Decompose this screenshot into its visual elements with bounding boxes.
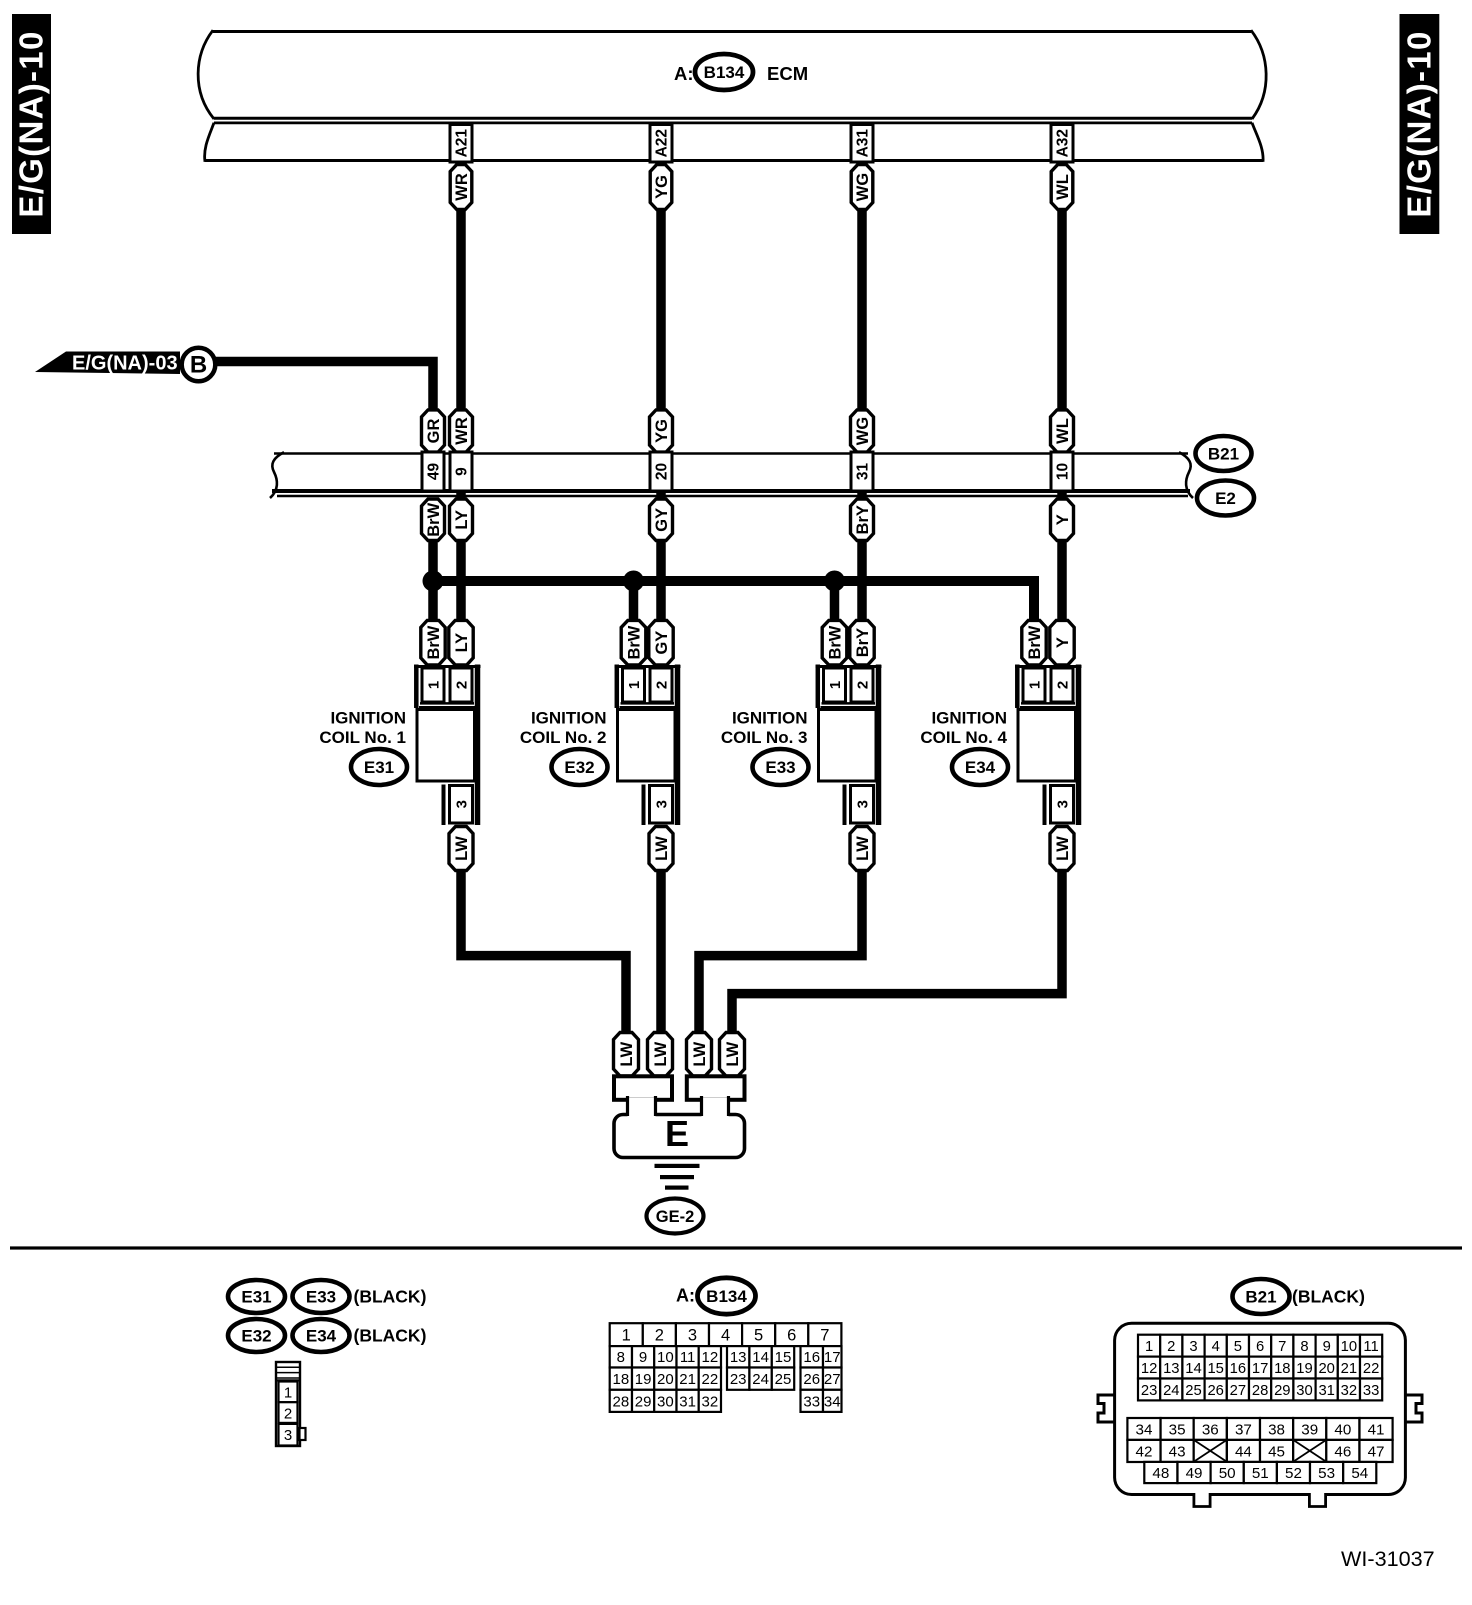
svg-text:YG: YG [653, 419, 671, 443]
svg-text:GR: GR [425, 419, 443, 444]
svg-text:LW: LW [653, 836, 671, 861]
svg-text:42: 42 [1136, 1443, 1153, 1460]
svg-text:B21: B21 [1245, 1288, 1276, 1307]
svg-text:31: 31 [855, 463, 872, 481]
svg-text:B21: B21 [1208, 445, 1239, 464]
svg-text:46: 46 [1334, 1443, 1351, 1460]
svg-text:10: 10 [1055, 463, 1072, 480]
svg-text:9: 9 [1323, 1339, 1331, 1355]
svg-text:E34: E34 [306, 1327, 337, 1346]
svg-text:19: 19 [1296, 1361, 1312, 1377]
svg-text:LW: LW [1054, 836, 1072, 861]
svg-text:7: 7 [1278, 1339, 1286, 1355]
svg-text:(BLACK): (BLACK) [354, 1326, 427, 1346]
svg-text:30: 30 [1296, 1383, 1312, 1399]
svg-text:1: 1 [284, 1385, 292, 1402]
svg-text:31: 31 [1318, 1383, 1334, 1399]
svg-text:Y: Y [1054, 514, 1072, 525]
svg-text:LW: LW [691, 1041, 709, 1066]
svg-text:LY: LY [453, 510, 471, 530]
svg-text:COIL No. 4: COIL No. 4 [920, 728, 1007, 747]
svg-text:26: 26 [803, 1371, 820, 1388]
svg-text:13: 13 [1163, 1361, 1179, 1377]
svg-text:35: 35 [1169, 1421, 1186, 1438]
svg-text:LW: LW [724, 1041, 742, 1066]
svg-text:A:: A: [674, 63, 694, 84]
svg-text:LW: LW [618, 1041, 636, 1066]
svg-text:WG: WG [854, 417, 872, 445]
svg-text:1: 1 [1145, 1339, 1153, 1355]
svg-text:COIL No. 1: COIL No. 1 [319, 728, 406, 747]
svg-text:1: 1 [425, 681, 442, 689]
svg-text:24: 24 [752, 1371, 769, 1388]
svg-text:LY: LY [453, 633, 471, 653]
svg-text:12: 12 [1141, 1361, 1157, 1377]
svg-text:40: 40 [1334, 1421, 1351, 1438]
svg-text:48: 48 [1152, 1465, 1169, 1482]
svg-text:E2: E2 [1215, 489, 1236, 508]
svg-text:20: 20 [657, 1371, 674, 1388]
svg-text:COIL No. 3: COIL No. 3 [721, 728, 808, 747]
svg-text:GY: GY [653, 631, 671, 655]
svg-text:IGNITION: IGNITION [330, 709, 406, 728]
svg-text:17: 17 [824, 1349, 841, 1366]
svg-text:33: 33 [803, 1393, 820, 1410]
svg-text:LW: LW [652, 1041, 670, 1066]
svg-text:1: 1 [626, 681, 643, 689]
svg-text:10: 10 [1341, 1339, 1357, 1355]
svg-text:26: 26 [1207, 1383, 1223, 1399]
svg-text:(BLACK): (BLACK) [354, 1287, 427, 1307]
svg-text:8: 8 [617, 1349, 625, 1366]
svg-text:14: 14 [752, 1349, 769, 1366]
svg-text:54: 54 [1351, 1465, 1368, 1482]
svg-text:34: 34 [824, 1393, 841, 1410]
svg-text:19: 19 [635, 1371, 652, 1388]
svg-text:E/G(NA)-10: E/G(NA)-10 [1401, 30, 1438, 217]
svg-text:6: 6 [787, 1327, 796, 1345]
svg-text:43: 43 [1169, 1443, 1186, 1460]
svg-text:52: 52 [1285, 1465, 1302, 1482]
svg-text:20: 20 [1318, 1361, 1334, 1377]
svg-text:12: 12 [702, 1349, 719, 1366]
svg-text:WR: WR [453, 417, 471, 445]
svg-text:3: 3 [284, 1427, 292, 1444]
svg-text:YG: YG [653, 175, 671, 199]
svg-text:GE-2: GE-2 [656, 1208, 695, 1226]
svg-text:LW: LW [453, 836, 471, 861]
svg-text:2: 2 [854, 681, 871, 689]
svg-text:IGNITION: IGNITION [931, 709, 1007, 728]
svg-text:B134: B134 [704, 63, 745, 82]
svg-text:E31: E31 [364, 758, 394, 777]
svg-text:WR: WR [453, 173, 471, 201]
svg-text:Y: Y [1054, 637, 1072, 648]
svg-text:(BLACK): (BLACK) [1292, 1287, 1365, 1307]
svg-text:COIL No. 2: COIL No. 2 [520, 728, 607, 747]
svg-text:31: 31 [679, 1393, 696, 1410]
svg-text:14: 14 [1185, 1361, 1201, 1377]
svg-text:16: 16 [1230, 1361, 1246, 1377]
svg-text:16: 16 [803, 1349, 820, 1366]
svg-text:BrW: BrW [425, 502, 443, 536]
svg-text:50: 50 [1219, 1465, 1236, 1482]
svg-text:5: 5 [754, 1327, 763, 1345]
svg-text:2: 2 [1167, 1339, 1175, 1355]
svg-text:BrY: BrY [854, 505, 872, 534]
svg-text:3: 3 [653, 800, 670, 808]
svg-text:32: 32 [702, 1393, 719, 1410]
svg-text:B134: B134 [706, 1287, 747, 1306]
svg-text:4: 4 [1212, 1339, 1220, 1355]
svg-text:IGNITION: IGNITION [732, 709, 808, 728]
svg-text:E32: E32 [564, 758, 594, 777]
svg-text:30: 30 [657, 1393, 674, 1410]
svg-text:38: 38 [1268, 1421, 1285, 1438]
svg-text:9: 9 [639, 1349, 647, 1366]
svg-text:E34: E34 [965, 758, 996, 777]
svg-text:25: 25 [775, 1371, 792, 1388]
svg-text:27: 27 [824, 1371, 841, 1388]
svg-text:11: 11 [1363, 1339, 1378, 1355]
svg-text:23: 23 [730, 1371, 747, 1388]
svg-text:15: 15 [775, 1349, 792, 1366]
svg-text:45: 45 [1268, 1443, 1285, 1460]
svg-text:53: 53 [1318, 1465, 1335, 1482]
svg-text:41: 41 [1368, 1421, 1385, 1438]
svg-text:B: B [190, 352, 207, 379]
svg-text:BrY: BrY [854, 628, 872, 657]
svg-text:4: 4 [721, 1327, 730, 1345]
svg-text:2: 2 [1054, 681, 1071, 689]
svg-text:WL: WL [1054, 418, 1072, 444]
svg-text:WG: WG [854, 173, 872, 201]
svg-text:E33: E33 [765, 758, 795, 777]
svg-text:7: 7 [820, 1327, 829, 1345]
svg-text:18: 18 [1274, 1361, 1290, 1377]
svg-text:A32: A32 [1055, 129, 1072, 157]
svg-text:27: 27 [1230, 1383, 1246, 1399]
svg-text:22: 22 [1363, 1361, 1379, 1377]
svg-text:29: 29 [635, 1393, 652, 1410]
svg-text:11: 11 [680, 1349, 696, 1366]
svg-text:3: 3 [854, 800, 871, 808]
svg-text:E: E [665, 1113, 689, 1154]
svg-text:LW: LW [854, 836, 872, 861]
svg-text:21: 21 [679, 1371, 696, 1388]
svg-text:5: 5 [1234, 1339, 1242, 1355]
svg-text:34: 34 [1136, 1421, 1153, 1438]
svg-text:IGNITION: IGNITION [531, 709, 607, 728]
svg-text:39: 39 [1301, 1421, 1318, 1438]
svg-text:BrW: BrW [1026, 625, 1044, 659]
svg-text:BrW: BrW [625, 625, 643, 659]
svg-text:25: 25 [1185, 1383, 1201, 1399]
svg-text:49: 49 [426, 463, 443, 481]
svg-text:E31: E31 [241, 1288, 271, 1307]
svg-text:3: 3 [453, 800, 470, 808]
svg-text:24: 24 [1163, 1383, 1179, 1399]
svg-text:3: 3 [1189, 1339, 1197, 1355]
svg-text:2: 2 [653, 681, 670, 689]
svg-text:A22: A22 [654, 129, 671, 157]
svg-text:6: 6 [1256, 1339, 1264, 1355]
svg-text:3: 3 [1054, 800, 1071, 808]
svg-text:A31: A31 [855, 129, 872, 158]
svg-text:17: 17 [1252, 1361, 1268, 1377]
svg-text:E/G(NA)-03: E/G(NA)-03 [72, 353, 178, 375]
svg-text:E/G(NA)-10: E/G(NA)-10 [13, 30, 50, 217]
svg-text:15: 15 [1207, 1361, 1223, 1377]
svg-text:51: 51 [1252, 1465, 1269, 1482]
svg-text:BrW: BrW [826, 625, 844, 659]
svg-text:9: 9 [454, 467, 471, 476]
svg-text:36: 36 [1202, 1421, 1219, 1438]
svg-text:23: 23 [1141, 1383, 1157, 1399]
svg-text:1: 1 [622, 1327, 631, 1345]
svg-text:E32: E32 [241, 1327, 271, 1346]
svg-text:29: 29 [1274, 1383, 1290, 1399]
svg-text:18: 18 [612, 1371, 629, 1388]
svg-text:21: 21 [1341, 1361, 1357, 1377]
svg-text:1: 1 [1026, 681, 1043, 689]
svg-text:47: 47 [1368, 1443, 1385, 1460]
svg-text:A21: A21 [454, 129, 471, 158]
svg-text:E33: E33 [306, 1288, 336, 1307]
svg-text:2: 2 [284, 1405, 292, 1422]
svg-text:GY: GY [653, 508, 671, 532]
svg-text:33: 33 [1363, 1383, 1379, 1399]
svg-text:2: 2 [453, 681, 470, 689]
svg-text:37: 37 [1235, 1421, 1252, 1438]
svg-text:A:: A: [676, 1286, 695, 1306]
svg-text:3: 3 [688, 1327, 697, 1345]
svg-text:20: 20 [654, 463, 671, 480]
svg-text:28: 28 [612, 1393, 629, 1410]
svg-text:2: 2 [655, 1327, 664, 1345]
svg-text:8: 8 [1300, 1339, 1308, 1355]
svg-text:WI-31037: WI-31037 [1341, 1546, 1435, 1571]
svg-text:32: 32 [1341, 1383, 1357, 1399]
svg-text:22: 22 [702, 1371, 719, 1388]
svg-text:WL: WL [1054, 174, 1072, 200]
svg-text:44: 44 [1235, 1443, 1252, 1460]
svg-text:28: 28 [1252, 1383, 1268, 1399]
svg-text:10: 10 [657, 1349, 674, 1366]
svg-text:1: 1 [827, 681, 844, 689]
svg-text:13: 13 [730, 1349, 747, 1366]
svg-text:BrW: BrW [425, 625, 443, 659]
svg-text:ECM: ECM [767, 63, 808, 84]
svg-text:49: 49 [1186, 1465, 1203, 1482]
